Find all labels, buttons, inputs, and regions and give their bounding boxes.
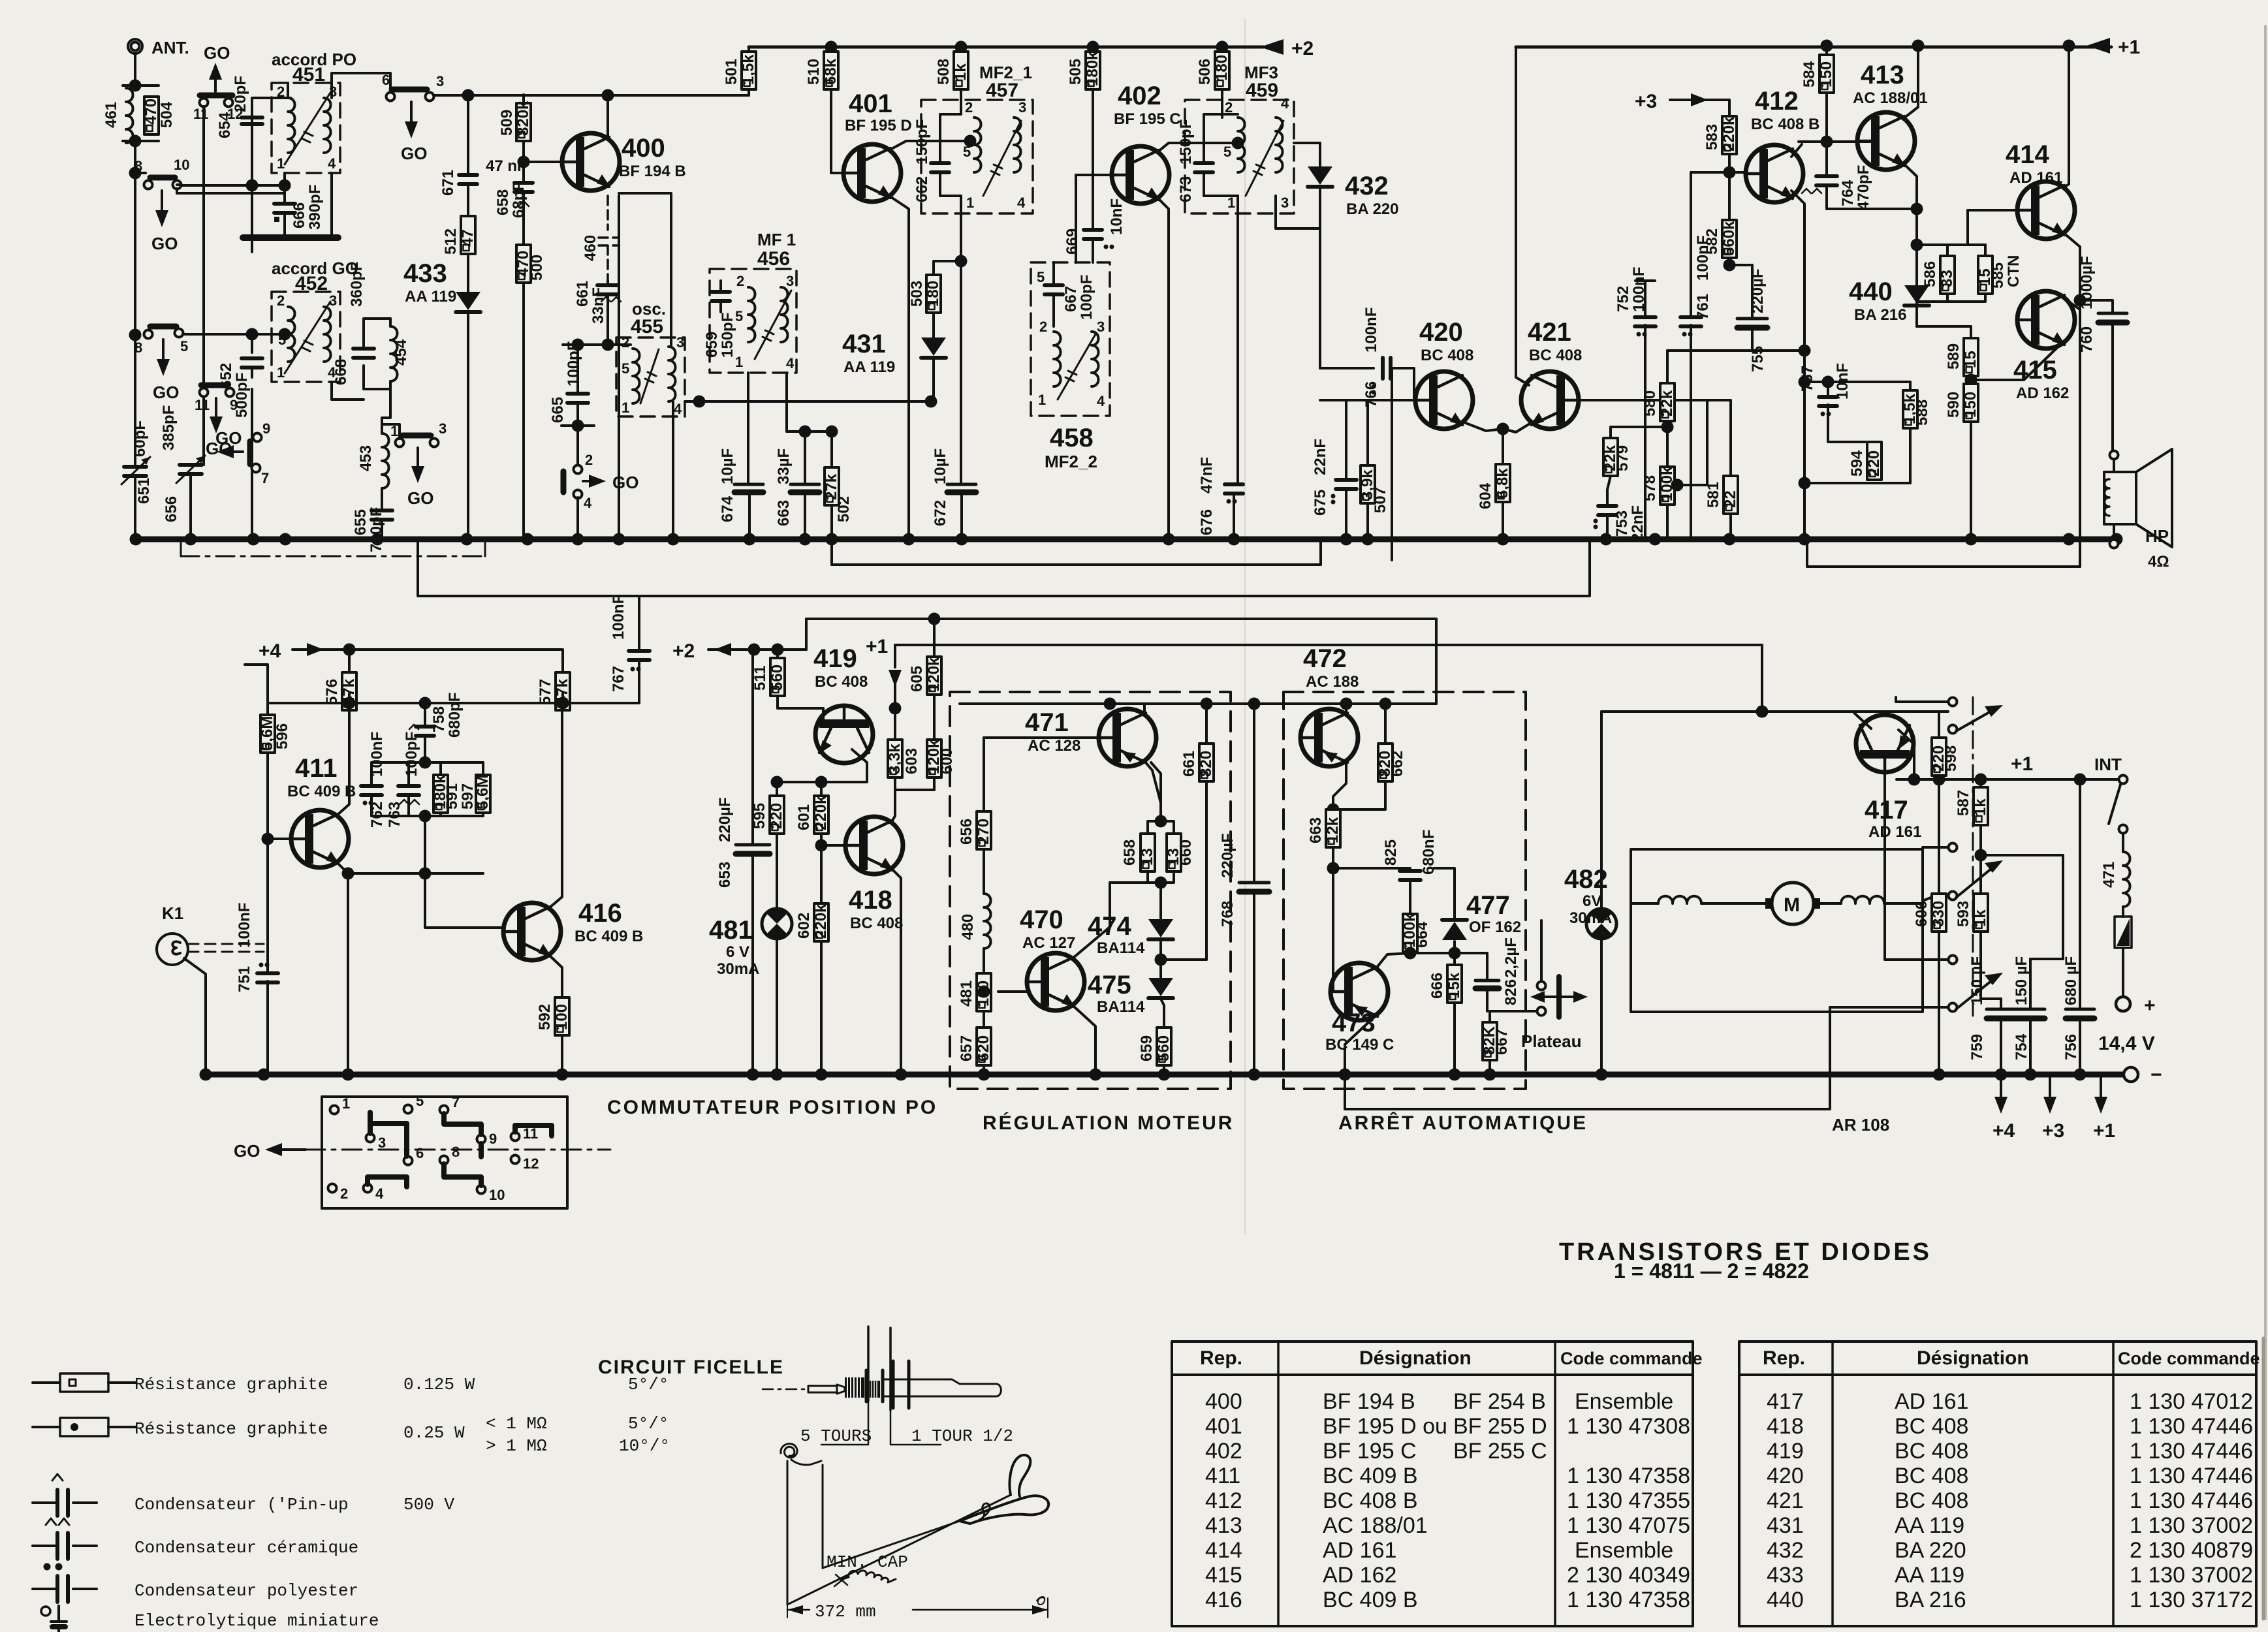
- motor loop box: [1631, 849, 1923, 1012]
- contact 5: [404, 1105, 413, 1114]
- node on +1 bus: [2063, 40, 2075, 52]
- paper crease: [1244, 20, 1246, 1234]
- trimmer 460: [599, 196, 617, 281]
- svg-text:10nF: 10nF: [1108, 198, 1126, 235]
- svg-text:BF 194 B: BF 194 B: [619, 163, 686, 180]
- svg-text:458: 458: [1050, 424, 1094, 452]
- wire 414 collector from +1: [2063, 46, 2069, 188]
- svg-text:661: 661: [1180, 751, 1198, 777]
- cluster bottom rail: [371, 795, 483, 816]
- svg-text:AC 128: AC 128: [1028, 737, 1080, 755]
- node: [419, 757, 432, 769]
- node on +2 bus: [955, 41, 968, 54]
- transistor 413: [1857, 112, 1915, 170]
- svg-text:5: 5: [1037, 269, 1045, 285]
- electrolytic 760 1000uF: [2080, 300, 2113, 455]
- svg-text:Plateau: Plateau: [1521, 1031, 1582, 1051]
- svg-text:757: 757: [1799, 366, 1816, 392]
- wire 502 to bus and down: [830, 505, 833, 565]
- node: [1155, 815, 1167, 828]
- svg-text:68k: 68k: [822, 58, 840, 85]
- leader bracket 5 tours: [821, 1401, 868, 1445]
- svg-text:666: 666: [1428, 973, 1446, 999]
- washer: [892, 1361, 895, 1408]
- svg-text:9: 9: [262, 420, 270, 437]
- svg-text:759: 759: [1968, 1034, 1986, 1060]
- svg-text:BC 408: BC 408: [1895, 1414, 1968, 1439]
- node: [1821, 136, 1833, 148]
- svg-text:1: 1: [1227, 195, 1235, 211]
- axle dashdot: [763, 1389, 808, 1390]
- wire 3-switch top right to 717 column: [433, 443, 468, 539]
- washer: [907, 1361, 911, 1408]
- arrow +2 feed: [708, 648, 719, 651]
- diode 440: [1904, 285, 1929, 306]
- svg-text:760: 760: [2078, 326, 2096, 353]
- resistor 509 820k: [523, 95, 524, 104]
- resistor 589 15: [1964, 338, 1978, 376]
- svg-text:BC 408: BC 408: [850, 915, 903, 932]
- svg-text:BA 216: BA 216: [1895, 1588, 1966, 1612]
- wire 432 to 420 base: [1320, 367, 1374, 369]
- contact 8: [440, 1156, 449, 1165]
- svg-text:400: 400: [1205, 1389, 1242, 1414]
- svg-text:1 130 37002: 1 130 37002: [2130, 1513, 2253, 1538]
- resistor 501 1,5k: [748, 47, 750, 52]
- svg-text:511: 511: [751, 665, 769, 691]
- wire 400 emitter: [608, 185, 619, 539]
- svg-text:+4: +4: [259, 640, 281, 662]
- cluster top rail: [371, 736, 483, 785]
- motor coil right: [1841, 896, 1884, 903]
- wire 473 emitter: [1376, 1015, 1387, 1075]
- wire 579 branch: [1611, 427, 1667, 438]
- wire pair bottom: [1110, 871, 1174, 919]
- resistor 576 47k: [349, 654, 455, 672]
- svg-text:560: 560: [768, 665, 786, 691]
- lamp 482: [1601, 645, 1602, 909]
- resistor 581 22: [1729, 272, 1730, 476]
- svg-text:GO: GO: [215, 428, 242, 448]
- svg-text:1: 1: [277, 364, 285, 381]
- svg-text:674: 674: [719, 495, 736, 522]
- fuse: [2122, 907, 2124, 917]
- svg-text:8: 8: [452, 1144, 460, 1160]
- svg-text:6,8k: 6,8k: [1494, 468, 1511, 499]
- resistor 510 68k: [830, 47, 832, 52]
- electrolytic 759 150uF: [2000, 999, 2002, 1075]
- resistor 656 270: [983, 738, 985, 811]
- svg-text:Code commande: Code commande: [1560, 1349, 1703, 1368]
- svg-text:+2: +2: [1291, 38, 1314, 59]
- svg-text:BC 408 B: BC 408 B: [1323, 1488, 1418, 1513]
- svg-text:150 µF: 150 µF: [2013, 956, 2030, 1005]
- variable capacitor 651 60pF: [124, 467, 146, 476]
- svg-text:767: 767: [610, 666, 627, 692]
- svg-text:GO: GO: [234, 1141, 260, 1161]
- node: [518, 156, 530, 168]
- svg-text:417: 417: [1865, 796, 1908, 824]
- transistor 411: [291, 810, 349, 868]
- wire 598 down 606: [1938, 776, 1940, 894]
- ground bus top section: [136, 537, 2117, 542]
- svg-text:150pF: 150pF: [1177, 119, 1195, 165]
- svg-text:606: 606: [1913, 901, 1930, 927]
- resistor 586 33: [1946, 245, 1949, 256]
- transistor 420: [1415, 371, 1473, 429]
- wire 452 sec to 433: [324, 291, 353, 307]
- svg-text:AD 162: AD 162: [1323, 1563, 1396, 1588]
- svg-text:588: 588: [1914, 400, 1931, 426]
- resistor 500 470: [522, 202, 525, 245]
- svg-text:Code commande: Code commande: [2118, 1349, 2260, 1368]
- svg-text:BC 408: BC 408: [1421, 347, 1473, 364]
- capacitor 757 10nF: [1804, 382, 1828, 424]
- svg-text:1k: 1k: [1972, 909, 1989, 927]
- svg-text:826: 826: [1502, 979, 1520, 1005]
- resistor 601 220k: [820, 782, 823, 796]
- svg-text:100pF: 100pF: [1078, 275, 1095, 320]
- svg-text:1 130 37002: 1 130 37002: [2130, 1563, 2253, 1588]
- resistor 506 180: [1221, 47, 1223, 52]
- svg-text:1 130 47446: 1 130 47446: [2130, 1464, 2253, 1488]
- node: [955, 255, 968, 268]
- resistor 584 150: [1825, 46, 1828, 55]
- svg-text:656: 656: [958, 819, 975, 845]
- wire 458 to 402 base: [1074, 175, 1112, 262]
- wire 592 to bus: [561, 1035, 563, 1075]
- svg-text:412: 412: [1755, 87, 1799, 116]
- svg-text:501: 501: [723, 59, 740, 85]
- svg-text:GO: GO: [151, 234, 178, 253]
- bar 4: [368, 1177, 407, 1187]
- wire 440 column: [1915, 209, 1918, 285]
- svg-text:586: 586: [1921, 261, 1939, 287]
- resistor 481 100: [983, 949, 985, 973]
- svg-text:658: 658: [1121, 840, 1139, 866]
- arrow +4 feed: [292, 648, 307, 651]
- svg-text:2: 2: [622, 334, 629, 351]
- node on +1 bus: [1821, 40, 1833, 52]
- resistor 663 12k: [1327, 804, 1340, 816]
- svg-text:+2: +2: [672, 640, 695, 662]
- resistor 591 180k: [439, 762, 442, 775]
- svg-text:1: 1: [966, 195, 974, 211]
- svg-text:481: 481: [709, 916, 753, 945]
- tuning arrow 458: [1058, 334, 1095, 400]
- transformer 451 dashed box: [272, 83, 340, 173]
- svg-text:Rep.: Rep.: [1763, 1347, 1805, 1369]
- tuning arrow 459: [1246, 121, 1284, 196]
- wire 412 collector: [1791, 144, 1802, 157]
- svg-text:BA114: BA114: [1097, 939, 1145, 957]
- svg-text:577: 577: [537, 679, 554, 705]
- node: [1975, 849, 1987, 862]
- wire 754 rail: [2030, 958, 2063, 960]
- dial cord pull lines: [868, 1326, 890, 1410]
- svg-text:471: 471: [1025, 708, 1069, 737]
- wire cluster to 416: [348, 816, 501, 928]
- transformer 457 dashed box: [921, 100, 1033, 213]
- wire feedback: [1807, 539, 2080, 567]
- node: [1404, 947, 1417, 960]
- svg-text:Ensemble: Ensemble: [1575, 1538, 1673, 1563]
- node: [1724, 259, 1736, 272]
- wire 400 collector: [606, 95, 609, 138]
- wire 755 to emitter column: [1752, 349, 1804, 352]
- wire regulation feed line: [934, 703, 1254, 704]
- node: [1724, 166, 1736, 179]
- node: [462, 89, 475, 102]
- node: [1911, 203, 1923, 215]
- svg-text:330: 330: [1930, 901, 1947, 927]
- wire osc rail: [561, 339, 633, 345]
- node: [246, 328, 259, 341]
- svg-text:603: 603: [903, 748, 921, 774]
- transistor 421: [1521, 371, 1579, 429]
- wire 421 base line: [1581, 400, 1731, 476]
- svg-text:667: 667: [1062, 286, 1080, 312]
- node: [1799, 477, 1811, 490]
- wire 473 collector: [1376, 953, 1455, 968]
- polyester marks: [1104, 245, 1109, 249]
- node: [1908, 774, 1921, 786]
- wire 417 collector: [1853, 712, 1870, 729]
- svg-text:33nF: 33nF: [590, 287, 607, 324]
- contact 3: [366, 1134, 375, 1142]
- switch contacts column: [1972, 697, 1974, 1016]
- resistor 661 820: [1205, 704, 1208, 744]
- resistor 504 470: [144, 97, 159, 134]
- svg-text:10: 10: [489, 1187, 505, 1203]
- legend resistor 0.125W symbol: [33, 1381, 136, 1384]
- resistor 605 120k: [933, 619, 936, 657]
- electrolytic 768 220uF: [1253, 704, 1255, 1075]
- svg-text:676: 676: [1198, 509, 1216, 535]
- wire 456 pin1 column cap 674: [748, 373, 749, 539]
- wire pin3 to switch 6-3: [332, 73, 390, 98]
- svg-text:180k: 180k: [1084, 51, 1101, 86]
- svg-text:433: 433: [403, 259, 447, 288]
- wire 414 base: [1985, 210, 2016, 274]
- svg-text:220k: 220k: [812, 795, 830, 830]
- svg-text:100nF: 100nF: [1694, 236, 1712, 281]
- capacitor 764 470pF: [1825, 142, 1828, 209]
- svg-text:671: 671: [439, 170, 457, 196]
- svg-text:372 mm: 372 mm: [815, 1602, 876, 1622]
- svg-text:12k: 12k: [1324, 817, 1342, 843]
- svg-text:100nF: 100nF: [1362, 307, 1380, 353]
- svg-text:60pF: 60pF: [131, 420, 149, 457]
- wire 416 emitter: [549, 955, 562, 997]
- svg-text:2: 2: [277, 292, 285, 309]
- wire top contact feed: [1940, 711, 1945, 712]
- wire 470 collector: [1073, 883, 1110, 958]
- resistor 604 6,8k: [1496, 464, 1510, 502]
- legend capacitor pinup symbol: [33, 1501, 97, 1504]
- wire 415 emitter to 589/590: [1971, 342, 2063, 380]
- svg-text:BC 409 B: BC 409 B: [287, 783, 356, 800]
- switch 8-5: [144, 330, 153, 339]
- svg-text:507: 507: [1372, 487, 1389, 513]
- svg-text:402: 402: [1118, 82, 1161, 110]
- diode 432: [1319, 166, 1321, 228]
- wire fuse to +: [2122, 948, 2124, 996]
- wire 477: [1455, 868, 1475, 953]
- svg-text:15: 15: [1962, 351, 1979, 368]
- svg-text:Ensemble: Ensemble: [1575, 1389, 1673, 1414]
- svg-text:180: 180: [1213, 55, 1231, 81]
- transformer 452 dashed box: [272, 292, 340, 382]
- svg-text:1 = 4811 — 2 = 4822: 1 = 4811 — 2 = 4822: [1614, 1259, 1809, 1283]
- wire ring and hook: [960, 1496, 1048, 1524]
- ceramic marks: [518, 201, 529, 206]
- svg-text:15k: 15k: [1445, 972, 1463, 999]
- wire 603 to collector line: [895, 777, 934, 790]
- wire 663 to 473: [1331, 847, 1333, 992]
- svg-text:411: 411: [295, 754, 338, 783]
- svg-text:663: 663: [775, 500, 793, 526]
- svg-text:2: 2: [340, 1185, 348, 1202]
- svg-text:7: 7: [261, 470, 269, 486]
- svg-text:0.25 W: 0.25 W: [403, 1423, 465, 1443]
- transistor 417: [1856, 715, 1914, 772]
- node: [693, 396, 706, 408]
- svg-text:Résistance graphite: Résistance graphite: [134, 1419, 328, 1439]
- svg-text:11: 11: [195, 397, 210, 413]
- svg-text:820k: 820k: [514, 101, 532, 136]
- svg-text:5: 5: [180, 338, 188, 354]
- svg-text:419: 419: [813, 644, 857, 673]
- svg-text:4: 4: [786, 355, 795, 371]
- svg-text:415: 415: [1205, 1563, 1242, 1588]
- wire bridge L2: [418, 539, 1590, 596]
- wire 474-475: [1159, 940, 1162, 978]
- wire 418 emitter: [891, 868, 901, 1075]
- svg-text:763: 763: [386, 802, 403, 828]
- svg-text:656: 656: [163, 496, 180, 522]
- svg-text:150 µF: 150 µF: [1968, 956, 1986, 1005]
- wire 471 base left: [984, 736, 1099, 739]
- wire 576 top: [349, 650, 483, 672]
- svg-text:385pF: 385pF: [160, 405, 178, 450]
- GO arrow down: [162, 339, 165, 366]
- svg-text:Désignation: Désignation: [1917, 1347, 2029, 1369]
- svg-text:432: 432: [1767, 1538, 1804, 1563]
- capacitor 826 2,2uF: [1455, 953, 1487, 979]
- capacitor 751 100nF: [257, 973, 278, 982]
- capacitor 652 500pF: [242, 334, 262, 539]
- svg-text:GO: GO: [407, 488, 433, 508]
- wire 593 to caps rail: [1981, 932, 2001, 999]
- emitter RC network: [1804, 382, 1910, 457]
- GO arrow down: [161, 191, 163, 217]
- resistor 667 82K: [1487, 1011, 1490, 1022]
- wire osc sec top to 400 emitter: [619, 193, 671, 347]
- capacitor 753 22nF: [1607, 476, 1611, 539]
- svg-text:482: 482: [1564, 865, 1608, 894]
- wire 475 to 659: [1161, 999, 1164, 1028]
- svg-text:−: −: [2150, 1064, 2162, 1086]
- svg-text:4: 4: [1281, 95, 1289, 112]
- wire 417 emitter: [1899, 712, 1914, 729]
- svg-text:220k: 220k: [812, 903, 830, 939]
- transistor 473: [1331, 963, 1388, 1020]
- node: [343, 644, 356, 656]
- wire 510 to 401 base: [831, 89, 843, 173]
- svg-text:587: 587: [1955, 790, 1972, 816]
- svg-text:504: 504: [158, 101, 176, 128]
- svg-text:7: 7: [452, 1094, 460, 1110]
- wire +2 top bus: [749, 46, 1263, 49]
- svg-text:454: 454: [392, 339, 410, 366]
- svg-text:10°/°: 10°/°: [619, 1436, 670, 1456]
- arret automatique dashed box: [1284, 692, 1526, 1089]
- legend capacitor polyester symbol: [33, 1588, 97, 1590]
- wire 419 emitter to line: [777, 749, 867, 782]
- svg-text:2: 2: [1225, 99, 1233, 116]
- svg-text:412: 412: [1205, 1488, 1242, 1513]
- capacitor 825 680nF: [1410, 868, 1411, 870]
- svg-text:605: 605: [908, 666, 926, 692]
- svg-text:418: 418: [1767, 1414, 1804, 1439]
- resistor 503 180: [934, 261, 961, 275]
- svg-text:663: 663: [1307, 817, 1325, 843]
- legend resistor 0.25W symbol: [33, 1426, 136, 1428]
- svg-text:477: 477: [1466, 891, 1510, 920]
- wire 578 side tap: [1675, 400, 1707, 485]
- wire 582 bottom node: [1728, 258, 1731, 265]
- svg-text:< 1 MΩ: < 1 MΩ: [486, 1414, 547, 1434]
- svg-text:4: 4: [1097, 393, 1105, 409]
- svg-text:579: 579: [1614, 445, 1631, 471]
- plateau contacts: [1537, 982, 1546, 990]
- wire 508 through 457: [961, 89, 962, 539]
- node: [1232, 137, 1244, 149]
- svg-text:455: 455: [631, 316, 663, 337]
- svg-text:1 130 47358: 1 130 47358: [1567, 1588, 1690, 1612]
- coil 457 primary: [974, 118, 981, 172]
- svg-text:BA 220: BA 220: [1346, 200, 1398, 218]
- svg-text:GO: GO: [204, 43, 230, 63]
- wire 472 collector top: [1345, 704, 1347, 714]
- wire 825 line: [1333, 867, 1410, 870]
- dash-dot line: [306, 1149, 610, 1151]
- svg-text:AC 188: AC 188: [1306, 673, 1359, 691]
- capacitor 763 100pF: [398, 786, 419, 795]
- coil 452 primary: [288, 307, 295, 362]
- svg-text:OF 162: OF 162: [1469, 918, 1521, 936]
- svg-text:825: 825: [1382, 840, 1400, 866]
- svg-text:0.125 W: 0.125 W: [403, 1375, 475, 1394]
- node: [964, 135, 977, 148]
- node: [889, 702, 902, 715]
- wire 583 to base node: [1728, 154, 1731, 220]
- wire antenna down: [134, 54, 136, 539]
- wire 666 to bus: [1453, 1003, 1456, 1075]
- resistors 658 660 13 13: [1151, 762, 1161, 821]
- resistor 597 5,6M: [482, 762, 484, 775]
- svg-text:592: 592: [536, 1004, 554, 1030]
- svg-text:BF 255 C: BF 255 C: [1453, 1439, 1547, 1464]
- svg-text:180: 180: [924, 281, 942, 307]
- svg-text:593: 593: [1955, 901, 1972, 927]
- svg-text:3: 3: [1018, 99, 1026, 116]
- svg-text:+1: +1: [2093, 1120, 2115, 1142]
- resistor 512 47: [461, 216, 475, 254]
- capacitor 767 100nF: [639, 623, 662, 703]
- wire 454 to coil453: [382, 389, 390, 418]
